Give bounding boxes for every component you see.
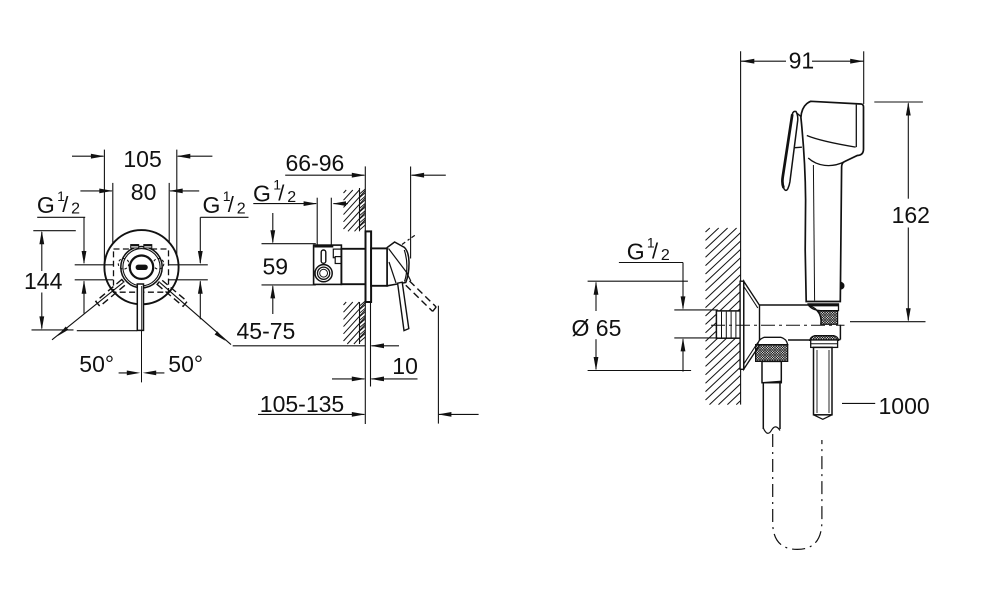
dashed union left	[118, 259, 129, 270]
svg-text:G: G	[627, 239, 645, 265]
screw tab left	[131, 245, 139, 248]
dimension diameter 65	[588, 280, 688, 282]
handle swing line left	[52, 283, 123, 340]
svg-text:Ø 65: Ø 65	[572, 315, 622, 341]
handle pill mark	[136, 265, 148, 270]
escutcheon circle	[104, 230, 178, 304]
dimension 105 extension lines	[103, 150, 105, 265]
escutcheon side view	[366, 231, 372, 302]
extension line dashed lever plane	[437, 306, 439, 424]
lever dashed position	[410, 281, 437, 307]
stem bottom reference line	[77, 330, 138, 332]
hose dome left	[758, 337, 788, 344]
wall stub threaded	[716, 311, 740, 338]
handle bottom collar	[808, 304, 839, 311]
hose loop dashed	[773, 434, 822, 549]
hose tube right	[814, 347, 833, 414]
stub extension lines	[674, 309, 718, 311]
svg-text:105: 105	[123, 146, 161, 172]
svg-text:144: 144	[24, 268, 63, 294]
svg-text:10: 10	[392, 353, 418, 379]
svg-text:45-75: 45-75	[237, 318, 296, 344]
dimension 59	[262, 243, 316, 245]
extension line of handle plane	[410, 167, 412, 259]
svg-text:G: G	[203, 192, 221, 218]
handle inner line	[813, 165, 814, 301]
inlet nipple	[321, 250, 326, 263]
dimension 1000	[842, 402, 875, 404]
hose tube right end taper	[814, 415, 833, 420]
handle swing line right	[160, 283, 231, 345]
trigger lever	[782, 111, 797, 190]
head transition curve upper	[807, 136, 856, 148]
up arrow to stub bottom	[682, 339, 684, 371]
handle base circle	[130, 256, 153, 279]
lever pivot line	[406, 272, 411, 281]
inlet pipe extension lines	[316, 198, 318, 245]
svg-text:G: G	[37, 192, 55, 218]
head transition curve lower	[808, 158, 845, 166]
dashed union right	[153, 259, 164, 270]
dimension 80 extension lines	[112, 183, 114, 249]
body top dark strip	[314, 245, 333, 248]
leader G 1/2 right view	[619, 262, 683, 264]
shower head outline	[801, 101, 864, 301]
inlet axis chord lines	[75, 264, 113, 266]
concealed body	[314, 245, 342, 284]
svg-text:2: 2	[237, 200, 246, 217]
holder body	[760, 304, 841, 340]
wall hatching right view	[706, 228, 710, 232]
svg-text:1000: 1000	[879, 393, 930, 419]
holder lip curve	[809, 306, 821, 325]
svg-text:91: 91	[789, 48, 815, 74]
svg-text:/: /	[652, 239, 659, 264]
dimension 144 line arrows label	[41, 232, 43, 271]
head face inner line	[855, 105, 857, 148]
dashed handle position left	[96, 280, 126, 307]
wall hatching (side view)	[344, 190, 347, 193]
hose tube left upper	[762, 361, 781, 382]
dimension 80 arrows and label	[80, 190, 112, 192]
rosette plate	[740, 281, 744, 369]
trigger crossbar	[795, 146, 802, 149]
mounting bracket steps	[333, 249, 341, 258]
leader G 1/2 upper-right	[200, 216, 248, 218]
screw tab right	[144, 245, 152, 248]
svg-text:50°: 50°	[168, 351, 203, 377]
sleeve ring outer	[121, 247, 162, 288]
cap of valve	[387, 242, 409, 286]
svg-text:80: 80	[131, 179, 157, 205]
G 1/2 dimension middle	[253, 203, 316, 205]
handle hook notch	[840, 281, 844, 289]
wall face line (side view)	[364, 166, 366, 231]
cartridge housing	[341, 249, 365, 284]
inlet union rings	[315, 265, 332, 282]
svg-text:66-96: 66-96	[286, 150, 345, 176]
wall finish ticks (side view)	[360, 189, 366, 194]
cartridge sleeve side view	[371, 248, 387, 285]
hose tube left lower	[762, 383, 764, 429]
extension line head right	[863, 51, 865, 104]
escutcheon front extension line	[370, 303, 372, 387]
svg-text:162: 162	[892, 202, 930, 228]
wall face line right view	[740, 51, 742, 311]
up arrow stems to lower chord	[83, 281, 85, 313]
hose dome right	[810, 336, 839, 341]
rosette cone	[744, 281, 760, 369]
swing arrow right	[215, 331, 226, 341]
dashed rough-in box	[114, 249, 169, 292]
svg-text:59: 59	[263, 253, 289, 279]
svg-text:2: 2	[71, 200, 80, 217]
sleeve ring inner	[123, 249, 160, 286]
angle dimension lines at centerline	[119, 372, 137, 374]
handle stem	[137, 284, 143, 330]
svg-text:2: 2	[661, 247, 670, 264]
dimension 91	[741, 60, 786, 62]
hose break left	[763, 427, 780, 433]
dimension 144 ticks	[33, 230, 76, 232]
svg-text:105-135: 105-135	[260, 391, 344, 417]
swing arrow left	[58, 327, 69, 337]
trigger top link	[797, 113, 801, 117]
svg-text:/: /	[228, 192, 235, 217]
hose collar right	[811, 340, 838, 347]
dashed handle position right	[157, 280, 187, 307]
dimension 162	[874, 101, 923, 103]
wall back line (side view)	[359, 188, 361, 231]
hose nut knurled right	[817, 311, 837, 325]
svg-text:G: G	[253, 180, 271, 206]
svg-text:50°: 50°	[79, 351, 114, 377]
cap dashed ticks	[402, 239, 410, 245]
svg-text:/: /	[278, 181, 285, 206]
centerline horizontal	[711, 324, 845, 326]
svg-text:/: /	[62, 192, 69, 217]
hose nut knurled left	[756, 345, 788, 362]
leader G 1/2 upper-left	[37, 216, 85, 218]
dimension 105 arrows and label	[72, 155, 104, 157]
vertical centerline below stem	[141, 330, 143, 382]
lever solid	[398, 282, 409, 330]
